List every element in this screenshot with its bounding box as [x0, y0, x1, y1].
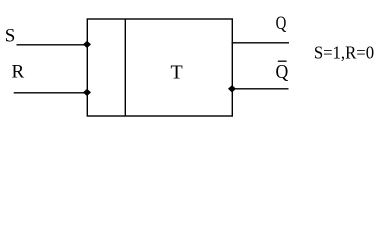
svg-text:R: R: [12, 62, 25, 83]
svg-text:Q: Q: [276, 61, 289, 83]
svg-text:T: T: [171, 62, 183, 84]
svg-text:S: S: [5, 26, 16, 47]
svg-text:Q: Q: [276, 12, 287, 33]
svg-text:S=1,R=0: S=1,R=0: [314, 43, 375, 63]
